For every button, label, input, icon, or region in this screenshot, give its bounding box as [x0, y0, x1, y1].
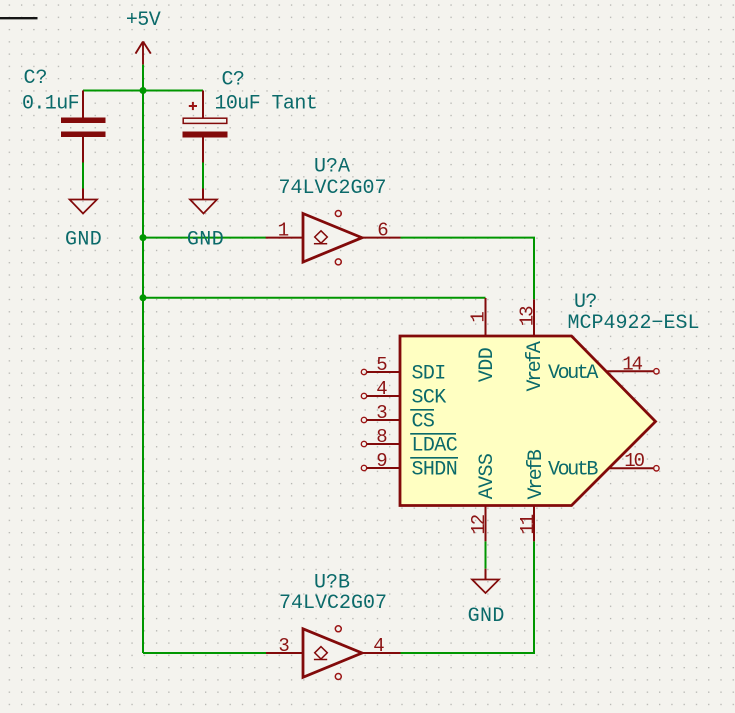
svg-text:SDI: SDI	[412, 363, 446, 386]
capacitor C1 0.1uF	[61, 91, 106, 163]
ground symbol 3 (AVSS)	[485, 569, 487, 580]
wire U?B out to VrefB	[401, 541, 535, 653]
wire +5V vertical main	[142, 65, 144, 653]
wire gnd row horizontal	[143, 237, 266, 239]
power symbol +5V	[136, 42, 151, 65]
svg-text:8: 8	[376, 426, 387, 448]
svg-text:VoutB: VoutB	[548, 459, 598, 482]
svg-text:74LVC2G07: 74LVC2G07	[278, 177, 386, 200]
svg-text:4: 4	[373, 635, 384, 657]
svg-text:3: 3	[278, 635, 289, 657]
junction 1	[140, 87, 147, 94]
U?B pin 3	[266, 652, 303, 654]
svg-text:MCP4922−ESL: MCP4922−ESL	[568, 312, 700, 335]
svg-text:74LVC2G07: 74LVC2G07	[279, 592, 387, 615]
svg-text:GND: GND	[187, 229, 224, 252]
ground symbol 1	[70, 200, 98, 214]
pin 8 LDAC	[361, 426, 457, 458]
svg-text:12: 12	[468, 514, 490, 534]
svg-text:AVSS: AVSS	[476, 453, 499, 499]
svg-text:5: 5	[376, 354, 387, 376]
svg-text:10uF Tant: 10uF Tant	[215, 93, 318, 116]
svg-text:GND: GND	[468, 605, 505, 628]
svg-text:C?: C?	[222, 69, 245, 92]
svg-text:SCK: SCK	[412, 387, 447, 410]
op-amp U?B 74LVC2G07	[303, 626, 362, 680]
wire bottom horizontal to U?B	[143, 652, 266, 654]
wire cap1 to gnd	[82, 163, 84, 189]
svg-text:+5V: +5V	[126, 9, 161, 32]
svg-text:14: 14	[622, 354, 642, 376]
wire top horizontal	[83, 90, 203, 92]
pin 9 SHDN	[361, 450, 458, 482]
pin 12 AVSS	[468, 453, 499, 541]
svg-text:C?: C?	[24, 67, 48, 90]
junction 2	[140, 234, 147, 241]
svg-text:1: 1	[468, 311, 490, 322]
svg-text:GND: GND	[65, 229, 102, 252]
pin 14 VoutA	[548, 354, 659, 386]
svg-text:6: 6	[377, 220, 388, 242]
svg-text:11: 11	[517, 514, 539, 534]
op-amp U?A 74LVC2G07	[303, 211, 362, 265]
svg-text:U?A: U?A	[314, 156, 350, 179]
pin 4 SCK	[361, 378, 446, 410]
wire VDD horizontal	[143, 297, 486, 299]
wire AVSS to gnd	[485, 541, 487, 568]
svg-text:SHDN: SHDN	[412, 459, 458, 482]
svg-text:3: 3	[376, 402, 387, 424]
pin 5 SDI	[361, 354, 445, 386]
U?A pin 6	[362, 237, 401, 239]
pin 1 VDD	[468, 298, 499, 382]
svg-text:13: 13	[517, 306, 539, 326]
svg-text:VoutA: VoutA	[548, 362, 598, 385]
capacitor C2 10uF Tant	[183, 91, 228, 163]
ground symbol 2	[190, 200, 217, 214]
junction 3	[140, 294, 147, 301]
IC U? MCP4922-ESL body	[400, 336, 656, 506]
svg-text:LDAC: LDAC	[412, 435, 458, 458]
svg-text:10: 10	[624, 450, 644, 472]
svg-text:9: 9	[376, 450, 387, 472]
svg-text:VDD: VDD	[476, 348, 499, 382]
svg-text:4: 4	[376, 378, 387, 400]
wire cap2 to gnd	[202, 163, 204, 189]
U?A pin 1	[266, 237, 303, 239]
pin 11 VrefB	[517, 449, 548, 541]
svg-text:VrefA: VrefA	[524, 341, 547, 391]
pin 13 VrefA	[517, 299, 547, 391]
svg-text:0.1uF: 0.1uF	[22, 93, 79, 116]
pin 3 CS	[361, 402, 435, 434]
wire U?A out to VrefA	[401, 238, 535, 300]
svg-text:1: 1	[278, 220, 289, 242]
sheet border fragment top-left	[0, 17, 38, 19]
svg-text:VrefB: VrefB	[525, 449, 548, 499]
svg-text:CS: CS	[412, 411, 435, 434]
pin 10 VoutB	[548, 450, 659, 482]
U?B pin 4	[362, 652, 401, 654]
svg-text:U?: U?	[574, 291, 597, 314]
